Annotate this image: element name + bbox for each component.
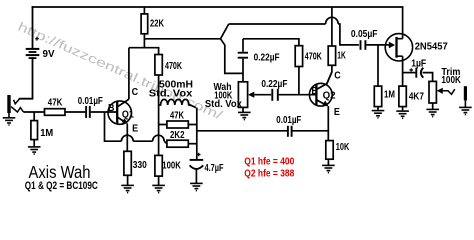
wire 330 to ground xyxy=(127,175,129,185)
ground (pot) xyxy=(238,112,251,119)
resistor 470K (Q1) xyxy=(155,55,162,76)
transistor Q2 xyxy=(309,71,340,118)
capacitor 4.7uF xyxy=(190,160,204,169)
wire top +9V rail xyxy=(33,6,403,8)
svg-text:C: C xyxy=(132,87,139,98)
wire 100K to ground xyxy=(158,176,160,185)
resistor 1M (input) xyxy=(31,121,38,140)
wire Q1 collector up xyxy=(128,48,130,99)
svg-text:4.7µF: 4.7µF xyxy=(205,163,224,174)
capacitor 0.22uF (upper) xyxy=(238,53,248,58)
svg-text:0.05µF: 0.05µF xyxy=(351,29,378,40)
resistor 22K xyxy=(143,7,145,48)
wire cap to Q1 base xyxy=(91,111,117,113)
svg-text:47K: 47K xyxy=(170,111,185,122)
svg-text:470K: 470K xyxy=(165,61,183,72)
capacitor 0.05uF xyxy=(361,40,366,50)
wire left rail down xyxy=(158,105,160,155)
wire hop over rail xyxy=(153,135,165,141)
svg-text:Q2: Q2 xyxy=(323,91,336,102)
wire right rail xyxy=(196,108,198,160)
JFET 2N5457 U1 xyxy=(385,34,448,61)
wire hop over emitter xyxy=(121,135,133,141)
wire cap 0.22 bottom xyxy=(242,59,244,82)
ground (4K7) xyxy=(396,111,409,118)
wire 4.7uF to ground xyxy=(195,169,197,183)
svg-text:0.22µF: 0.22µF xyxy=(254,53,280,64)
ground (input jack) xyxy=(8,113,10,118)
wire collector link to 470K xyxy=(129,48,159,55)
wire fork lower to pot top xyxy=(221,39,244,74)
wire JFET drain to rail xyxy=(402,7,404,39)
wire JFET source down xyxy=(402,56,404,86)
wire to 2K2 xyxy=(164,141,167,144)
svg-text:Q1: Q1 xyxy=(122,110,134,121)
inductor 500mH Std. Vox xyxy=(159,99,196,107)
wire source node right xyxy=(403,72,416,74)
svg-text:47K: 47K xyxy=(48,98,63,109)
svg-text:1K: 1K xyxy=(337,50,346,61)
potentiometer Wah 100K xyxy=(238,82,247,108)
wire feedback from Q1 base xyxy=(105,112,122,141)
wire trim to ground xyxy=(432,103,434,109)
svg-text:E: E xyxy=(334,107,340,118)
resistor 47K (input) xyxy=(45,109,66,116)
ground (1M gate) xyxy=(372,111,385,118)
svg-text:100K: 100K xyxy=(441,75,461,86)
wire cap to Q2 base xyxy=(279,94,317,96)
svg-text:Std. Vox: Std. Vox xyxy=(205,99,242,110)
ground (trim) xyxy=(426,109,439,116)
svg-text:Q1 hfe = 400: Q1 hfe = 400 xyxy=(244,156,294,168)
resistor 2K2 xyxy=(188,143,197,145)
ground (1M input) xyxy=(28,147,41,154)
svg-text:E: E xyxy=(132,123,138,134)
ground (10K) xyxy=(322,165,335,172)
svg-text:Q2 hfe = 388: Q2 hfe = 388 xyxy=(244,167,294,179)
resistor 470K (Q2) xyxy=(295,46,302,67)
wire battery bottom to jack xyxy=(20,58,33,99)
capacitor 1uF xyxy=(409,68,413,72)
wire Q2 emitter down xyxy=(327,106,329,132)
wire 22K junction to fork xyxy=(144,38,220,40)
svg-text:B: B xyxy=(311,86,318,97)
wiper arrow xyxy=(248,92,254,98)
transistor Q1 xyxy=(108,87,138,134)
trimpot Trim 100K xyxy=(429,81,436,103)
ground (330) xyxy=(121,185,134,192)
wire 1M to ground xyxy=(33,140,35,147)
wire input node xyxy=(23,111,44,113)
svg-text:0.01µF: 0.01µF xyxy=(78,96,103,107)
wire emitter node left xyxy=(197,130,287,132)
svg-text:B: B xyxy=(108,103,115,114)
wire emitter down to 330 xyxy=(126,124,128,152)
svg-text:470K: 470K xyxy=(305,51,323,62)
input jack J1 xyxy=(7,95,10,113)
svg-text:10K: 10K xyxy=(336,142,350,153)
ground (100K) xyxy=(152,185,165,192)
capacitor 0.22uF (wiper) xyxy=(272,89,278,101)
wire line C to 470K (Q2) xyxy=(243,39,299,46)
svg-text:0.22µF: 0.22µF xyxy=(261,79,287,90)
svg-text:Std. Vox: Std. Vox xyxy=(149,88,193,99)
svg-text:1µF: 1µF xyxy=(411,59,426,70)
svg-text:1M: 1M xyxy=(40,128,53,139)
svg-text:C: C xyxy=(334,71,341,82)
ground (4.7uF) xyxy=(190,183,203,190)
wire cap 0.22 top xyxy=(242,39,244,52)
wire 4K7 to ground xyxy=(402,107,404,112)
wire hop over 1K feed xyxy=(326,17,339,24)
svg-text:330: 330 xyxy=(133,160,147,171)
wire pot to ground xyxy=(242,107,244,112)
svg-text:100K: 100K xyxy=(162,161,181,172)
wire node to 1M xyxy=(33,112,35,121)
svg-text:2N5457: 2N5457 xyxy=(415,41,448,52)
wire 10K to ground xyxy=(327,160,329,165)
wire 1uF to trim xyxy=(423,73,433,82)
svg-text:4K7: 4K7 xyxy=(409,92,424,103)
resistor 47K (feedback) xyxy=(159,124,197,126)
resistor 1K xyxy=(327,7,332,84)
wire 47K to cap xyxy=(65,111,85,113)
ground (output jack) xyxy=(459,107,472,114)
svg-text:22K: 22K xyxy=(150,18,165,29)
wire 1M to ground xyxy=(377,107,379,111)
battery 9V xyxy=(26,37,40,58)
wire between hops xyxy=(133,140,152,142)
svg-text:2K2: 2K2 xyxy=(170,130,185,141)
resistor 10K xyxy=(326,141,333,160)
wire 470K to inductor xyxy=(158,75,160,105)
wire line B to 0.05uF xyxy=(229,23,326,25)
resistor 100K (Q1 emitter net) xyxy=(155,155,162,176)
svg-text:1M: 1M xyxy=(384,89,395,100)
wire gate node to 1M xyxy=(377,45,379,86)
svg-text:0.01µF: 0.01µF xyxy=(276,115,301,126)
svg-text:Q1 & Q2 = BC109C: Q1 & Q2 = BC109C xyxy=(25,180,98,192)
wire 470K to base node xyxy=(298,67,300,95)
capacitor 0.01uF (input) xyxy=(86,106,90,118)
capacitor 0.01uF (feedback) xyxy=(288,126,292,137)
svg-text:9V: 9V xyxy=(43,49,55,60)
output jack J2 xyxy=(464,86,467,100)
wire 0.05uF to gate xyxy=(366,44,390,46)
wire fork upper xyxy=(221,24,229,39)
resistor 330 xyxy=(124,151,131,175)
resistor 4K7 xyxy=(399,86,406,107)
wire battery top xyxy=(32,7,34,48)
resistor 1M (gate) xyxy=(374,86,381,107)
